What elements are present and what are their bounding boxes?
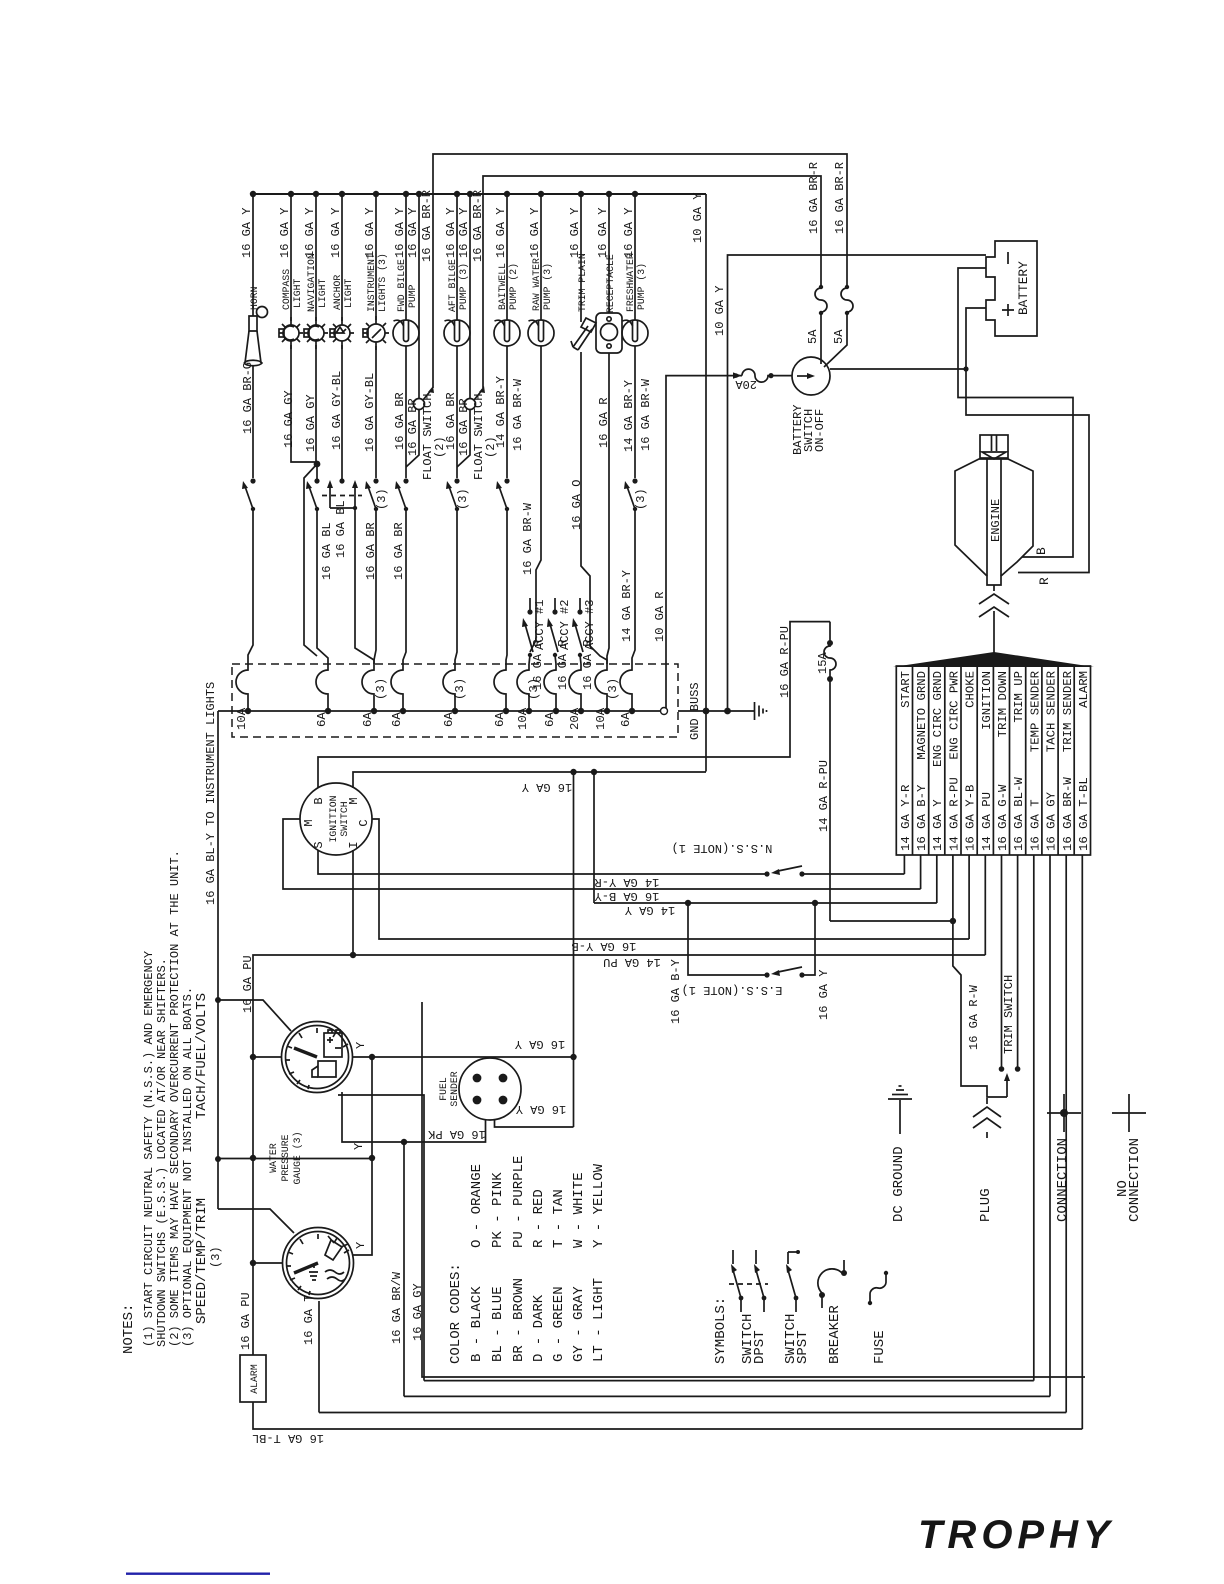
svg-text:(1) START CIRCUIT NEUTRAL SAF: (1) START CIRCUIT NEUTRAL SAFETY (N.S.S.…	[142, 951, 156, 1347]
svg-text:(3): (3)	[527, 678, 541, 700]
node trim down contact	[999, 1066, 1005, 1072]
wire ground drop to sender bar	[573, 772, 575, 1127]
wire trim plain down	[581, 352, 607, 664]
svg-text:DPST: DPST	[752, 1330, 768, 1364]
svg-text:M: M	[302, 819, 316, 826]
wire fuse bus	[218, 710, 661, 712]
svg-text:14 GA BR-Y: 14 GA BR-Y	[620, 570, 634, 642]
svg-text:14 GA BR-Y: 14 GA BR-Y	[494, 376, 508, 448]
svg-text:16 GA Y-B: 16 GA Y-B	[964, 785, 978, 851]
wire nav switch to fuse	[317, 509, 328, 664]
wire ignition M-top to gnd (16 GA Y)	[353, 772, 706, 788]
svg-text:(3): (3)	[606, 678, 620, 700]
node c4 junction	[950, 918, 956, 924]
svg-text:16 GA BR: 16 GA BR	[393, 392, 407, 450]
svg-text:16 GA Y: 16 GA Y	[329, 208, 343, 258]
node PU tap tach	[250, 1054, 256, 1060]
svg-text:(2) SOME ITEMS MAY HAVE SECON: (2) SOME ITEMS MAY HAVE SECONDARY OVERCU…	[168, 850, 182, 1347]
fuse 5A #1	[815, 288, 827, 364]
svg-text:16 GA Y: 16 GA Y	[568, 208, 582, 258]
wire accy1 to fuse	[529, 655, 530, 664]
horn symbol	[244, 305, 268, 366]
wire fuel sender PK	[342, 1092, 486, 1142]
wire instrument switch to fuse	[374, 509, 376, 664]
svg-text:ALARM: ALARM	[249, 1364, 260, 1394]
svg-text:I: I	[347, 841, 361, 848]
wire ESS left branch	[688, 903, 767, 975]
svg-text:16 GA Y: 16 GA Y	[406, 208, 420, 258]
wire navigation drop	[315, 194, 317, 325]
svg-text:16 GA Y: 16 GA Y	[278, 208, 292, 258]
wire ignition B to 15A box (16 GA R-PU)	[318, 622, 830, 788]
alarm box	[240, 1355, 266, 1402]
symbol connection	[1047, 1094, 1081, 1132]
wire receptacle drop	[608, 194, 610, 313]
svg-text:16 GA GY-BL: 16 GA GY-BL	[330, 371, 344, 450]
fuse 20A	[742, 369, 792, 382]
svg-text:TROPHY: TROPHY	[918, 1513, 1115, 1557]
svg-text:16 GA BL-Y TO INSTRUMENT LIGHT: 16 GA BL-Y TO INSTRUMENT LIGHTS	[204, 682, 218, 905]
svg-text:G - GREEN: G - GREEN	[551, 1286, 567, 1362]
svg-text:PUMP (3): PUMP (3)	[458, 263, 469, 310]
svg-text:16 GA Y: 16 GA Y	[596, 208, 610, 258]
connector strip dividers	[913, 666, 1075, 855]
fuse 15A	[824, 622, 836, 921]
svg-text:6A: 6A	[442, 712, 456, 727]
water pressure stub	[218, 1158, 372, 1160]
node gauge ground tap 2	[591, 769, 597, 775]
svg-text:14 GA Y: 14 GA Y	[931, 799, 945, 851]
blue rule bottom left	[126, 1573, 270, 1575]
wire tach gauge light feed	[218, 1000, 291, 1031]
svg-text:LIGHT: LIGHT	[317, 278, 328, 308]
wire float2 drop 16 GA Y	[469, 194, 471, 399]
wire ignition S to start line	[318, 850, 766, 874]
wire ESS right branch	[802, 903, 815, 975]
label SWITCH SPST	[783, 1314, 811, 1364]
wire start line right	[802, 873, 904, 875]
light symbol navigation	[304, 317, 328, 349]
svg-text:HORN: HORN	[249, 286, 260, 310]
svg-text:16 GA BR-W: 16 GA BR-W	[521, 502, 535, 575]
node gnd buss x706	[703, 708, 710, 715]
node 20A out	[768, 373, 773, 378]
svg-text:RAW WATER: RAW WATER	[531, 258, 542, 311]
node ESS left hang	[685, 900, 691, 906]
node compass-nav junction	[314, 461, 321, 468]
wire 10 GA Y drop from bus	[705, 194, 707, 772]
svg-text:CHOKE: CHOKE	[964, 671, 978, 708]
symbol breaker	[818, 1260, 847, 1308]
svg-text:10 GA R: 10 GA R	[653, 592, 667, 642]
wire eng circ grnd line	[594, 855, 937, 903]
svg-text:PRESSURE: PRESSURE	[280, 1134, 291, 1181]
svg-text:PU - PURPLE: PU - PURPLE	[511, 1156, 527, 1248]
svg-text:IGNITION: IGNITION	[328, 795, 339, 842]
svg-text:6A: 6A	[543, 712, 557, 727]
svg-text:16 GA GY: 16 GA GY	[304, 394, 318, 452]
svg-text:W - WHITE: W - WHITE	[571, 1172, 587, 1248]
svg-text:START: START	[899, 671, 913, 708]
svg-text:10 GA Y: 10 GA Y	[713, 286, 727, 336]
fuse amp labels	[235, 678, 633, 730]
label IGNITION SWITCH	[328, 795, 350, 842]
wire anchor drop	[341, 194, 343, 325]
node 15A top	[827, 640, 833, 646]
svg-text:BAITWELL: BAITWELL	[497, 263, 508, 310]
wire anchor down	[341, 341, 343, 479]
svg-text:16 GA Y: 16 GA Y	[622, 208, 636, 258]
svg-text:14 GA Y-R: 14 GA Y-R	[595, 875, 660, 889]
wire instrument drop	[375, 194, 377, 324]
trim plain symbol	[571, 318, 596, 350]
wire speed gauge light feed	[218, 1209, 294, 1233]
nodes 5A fuse ends	[819, 285, 823, 289]
switch nav	[306, 478, 320, 511]
wire raw water drop	[540, 194, 542, 320]
wire eng circ pwr line	[830, 855, 1007, 1097]
svg-text:COLOR CODES:: COLOR CODES:	[448, 1263, 464, 1364]
svg-text:16 GA Y: 16 GA Y	[303, 208, 317, 258]
label NO CONNECTION	[1115, 1138, 1143, 1222]
svg-text:B - BLACK: B - BLACK	[469, 1286, 485, 1362]
svg-text:ENG CIRC PWR: ENG CIRC PWR	[948, 670, 962, 759]
wire aft bilge drop	[456, 194, 458, 320]
wire float switch feed 1 (16 GA BR-R)	[433, 154, 847, 388]
wire tach sender line	[404, 855, 1050, 1396]
svg-text:16 GA BR: 16 GA BR	[457, 398, 471, 456]
wire ignition C to choke line	[372, 819, 969, 939]
svg-text:SWITCH: SWITCH	[339, 801, 350, 836]
wire compass down + jog to nav	[291, 341, 317, 462]
svg-text:COMPASS: COMPASS	[281, 269, 292, 310]
wire baitwell drop	[506, 194, 508, 320]
engine outline	[955, 435, 1033, 585]
node R junction	[963, 366, 968, 371]
svg-text:14 GA BR-Y: 14 GA BR-Y	[622, 380, 636, 452]
wire freshwater to switch	[634, 346, 636, 478]
svg-text:16 GA Y: 16 GA Y	[817, 970, 831, 1020]
node tach ground junction	[570, 1054, 576, 1060]
wire trim down c7	[1001, 855, 1003, 1069]
switch baitwell	[496, 478, 510, 511]
svg-text:SPST: SPST	[795, 1330, 811, 1364]
svg-text:PUMP (2): PUMP (2)	[508, 263, 519, 310]
svg-text:SHUTDOWN SWITCHS (E.S.S.) LOCA: SHUTDOWN SWITCHS (E.S.S.) LOCATED AT/OR …	[155, 958, 169, 1347]
svg-text:10 GA Y: 10 GA Y	[691, 193, 705, 243]
svg-text:6A: 6A	[493, 712, 507, 727]
wire tach sender GY	[338, 1095, 424, 1381]
switch horn	[242, 478, 256, 511]
svg-text:T - TAN: T - TAN	[551, 1189, 567, 1248]
switch aft bilge	[446, 478, 460, 511]
pump symbol raw water	[528, 320, 554, 346]
wire trim plain drop	[580, 194, 582, 322]
svg-text:Y: Y	[354, 1242, 368, 1249]
svg-text:(3): (3)	[375, 488, 389, 510]
svg-text:6A: 6A	[390, 712, 404, 727]
node water pressure right	[369, 1155, 375, 1161]
wire accy3 to fuse	[580, 655, 581, 664]
svg-text:6A: 6A	[315, 712, 329, 727]
switch ESS blade	[764, 967, 804, 978]
svg-text:16 GA BL: 16 GA BL	[320, 522, 334, 580]
wire compass drop	[290, 194, 292, 325]
svg-text:SPEED/TEMP/TRIM: SPEED/TEMP/TRIM	[194, 1198, 210, 1324]
wire battery plus to engine R	[966, 369, 1089, 573]
float switch fwd	[414, 386, 435, 410]
wire temp sender line	[424, 855, 1034, 1381]
svg-text:B: B	[312, 797, 326, 804]
battery switch circle	[792, 357, 830, 395]
symbol switch spst	[786, 1250, 800, 1312]
svg-text:16 GA BR: 16 GA BR	[392, 522, 406, 580]
svg-text:16 GA BR-R: 16 GA BR-R	[807, 162, 821, 234]
wire horn drop	[252, 194, 254, 308]
svg-text:10A: 10A	[235, 707, 249, 730]
svg-text:NOTES:: NOTES:	[121, 1304, 137, 1354]
wire ignition M-left to magneto grnd line	[283, 819, 921, 889]
svg-text:6A: 6A	[361, 712, 375, 727]
battery switch arrow	[797, 373, 815, 379]
svg-text:16 GA BR-G: 16 GA BR-G	[241, 362, 255, 434]
fuses in panel	[236, 664, 632, 711]
node gauge ground tap 1	[570, 769, 576, 775]
svg-text:14 GA PU: 14 GA PU	[603, 955, 661, 969]
svg-text:16 GA R: 16 GA R	[556, 640, 570, 690]
wire battery switch to battery plus	[830, 308, 986, 369]
svg-text:16 GA BR-W: 16 GA BR-W	[639, 378, 653, 451]
svg-text:16 GA Y: 16 GA Y	[393, 208, 407, 258]
svg-text:16 GA Y: 16 GA Y	[528, 208, 542, 258]
wire 16 GA BL-Y to instrument lights	[217, 711, 219, 1209]
wire float2 below	[457, 409, 470, 467]
svg-text:AFT BILGE: AFT BILGE	[447, 259, 458, 312]
wire tach Y ground	[352, 1056, 574, 1058]
label SWITCH DPST	[740, 1314, 768, 1364]
svg-text:FRESHWATER: FRESHWATER	[625, 253, 636, 312]
label WATER PRESSURE GAUGE (3)	[268, 1132, 303, 1185]
arrow on 20A feed	[733, 372, 742, 378]
svg-text:WATER: WATER	[268, 1143, 279, 1173]
svg-text:(3) OPTIONAL EQUIPMENT NOT IN: (3) OPTIONAL EQUIPMENT NOT INSTALLED ON …	[181, 987, 195, 1347]
svg-text:CONNECTION: CONNECTION	[1055, 1138, 1071, 1222]
symbol no connection	[1112, 1094, 1146, 1132]
wire 16 GA Y gauge ground right	[593, 772, 595, 903]
color codes columns	[469, 1156, 607, 1362]
svg-text:TACH/FUEL/VOLTS: TACH/FUEL/VOLTS	[194, 993, 210, 1119]
svg-text:ANCHOR: ANCHOR	[332, 275, 343, 310]
svg-text:20A: 20A	[568, 707, 582, 730]
svg-text:16 GA Y: 16 GA Y	[363, 208, 377, 258]
wire water pressure to speed gauge Y	[352, 1057, 372, 1255]
wire alarm line	[253, 855, 1082, 1429]
wire temp sender T from speed gauge	[318, 1301, 320, 1413]
svg-text:PUMP (3): PUMP (3)	[636, 263, 647, 310]
svg-text:20A: 20A	[735, 377, 757, 391]
svg-text:R: R	[1037, 577, 1052, 585]
svg-text:MAGNETO GRND: MAGNETO GRND	[915, 671, 929, 760]
light symbol compass	[279, 317, 303, 349]
svg-text:14 GA Y: 14 GA Y	[625, 903, 675, 917]
svg-text:LIGHT: LIGHT	[292, 278, 303, 308]
svg-text:16 GA PK: 16 GA PK	[427, 1127, 485, 1141]
float switch aft	[465, 386, 486, 410]
svg-text:INSTRUMENT: INSTRUMENT	[366, 253, 377, 312]
svg-text:(3): (3)	[456, 488, 470, 510]
wire accy2 to fuse	[555, 655, 556, 664]
wire ground bus 16 GA Y	[253, 193, 706, 195]
svg-text:16 GA BR-R: 16 GA BR-R	[471, 190, 485, 262]
wire fwd bilge pump to switch	[405, 346, 407, 478]
wire 20A feed from fuse bus	[666, 376, 742, 708]
symbol fuse	[868, 1271, 888, 1305]
wire float switch feed 2 (16 GA BR-R)	[483, 176, 821, 388]
switch freshwater	[624, 478, 638, 511]
wire nav down	[316, 341, 317, 479]
wire baitwell switch to fuse	[506, 509, 507, 664]
svg-text:16 GA BR/W: 16 GA BR/W	[390, 1271, 404, 1344]
svg-text:O - ORANGE: O - ORANGE	[469, 1164, 485, 1248]
svg-text:LT - LIGHT: LT - LIGHT	[591, 1278, 607, 1362]
pump symbol fwd bilge	[393, 320, 419, 346]
svg-text:GAUGE (3): GAUGE (3)	[292, 1132, 303, 1185]
svg-text:TRIM DOWN: TRIM DOWN	[996, 671, 1010, 737]
svg-text:16 GA Y: 16 GA Y	[516, 1102, 566, 1116]
wire horn switch to fuse	[248, 509, 253, 664]
tach gauge	[282, 1022, 353, 1093]
node PU tap speed	[250, 1260, 256, 1266]
svg-text:5A: 5A	[806, 329, 820, 344]
svg-text:16 GA B-Y: 16 GA B-Y	[669, 959, 683, 1024]
svg-text:(3): (3)	[634, 488, 648, 510]
legend box	[422, 1002, 1085, 1377]
wire 10 GA Y to battery minus	[728, 255, 987, 711]
svg-text:FWD BILGE: FWD BILGE	[396, 259, 407, 312]
svg-text:LIGHT: LIGHT	[343, 278, 354, 308]
svg-text:FUEL: FUEL	[438, 1077, 449, 1101]
wire c2 MAGNETO down	[920, 855, 922, 889]
svg-text:SYMBOLS:: SYMBOLS:	[713, 1297, 729, 1364]
nodes fuse bus	[245, 708, 635, 714]
connector strip black cap	[893, 652, 1094, 667]
svg-text:16 GA GY: 16 GA GY	[411, 1283, 425, 1341]
wire ignition I to ignition line	[353, 850, 985, 955]
svg-text:16 GA T-BL: 16 GA T-BL	[252, 1431, 324, 1445]
svg-text:PLUG: PLUG	[978, 1188, 994, 1222]
svg-text:16 GA PU: 16 GA PU	[241, 955, 255, 1013]
svg-text:15A: 15A	[816, 652, 830, 674]
svg-text:16 GA BL: 16 GA BL	[334, 500, 348, 558]
wire aft switch to fuse	[455, 509, 457, 664]
fuel sender tab + ground wire	[486, 1119, 574, 1127]
svg-text:16 GA BR-W: 16 GA BR-W	[511, 378, 525, 451]
wire freshwater switch to fuse	[632, 509, 635, 664]
svg-text:ON-OFF: ON-OFF	[813, 409, 827, 452]
svg-text:16 GA BR-W: 16 GA BR-W	[1061, 777, 1075, 851]
svg-text:IGNITION: IGNITION	[980, 671, 994, 730]
svg-text:10A: 10A	[516, 707, 530, 730]
wire compass branch diagonal	[304, 464, 317, 656]
svg-text:16 GA T: 16 GA T	[302, 1295, 316, 1345]
svg-text:16 GA Y-B: 16 GA Y-B	[572, 939, 637, 953]
svg-text:Y - YELLOW: Y - YELLOW	[591, 1163, 607, 1248]
wire freshwater drop	[634, 194, 636, 320]
svg-text:B: B	[1034, 547, 1049, 555]
pump symbol freshwater	[622, 320, 648, 346]
svg-text:16 GA BR: 16 GA BR	[364, 522, 378, 580]
svg-text:RECEPTACLE: RECEPTACLE	[605, 254, 616, 313]
svg-text:TRIM PLAIN: TRIM PLAIN	[577, 253, 588, 312]
plug chevrons engine connector	[979, 585, 1009, 653]
wire float1 drop 16 GA Y	[418, 194, 420, 399]
svg-text:NAVIGATION: NAVIGATION	[306, 253, 317, 312]
wire dpst to fuse	[355, 508, 374, 664]
svg-text:16 GA BR-R: 16 GA BR-R	[420, 190, 434, 262]
svg-text:16 GA Y: 16 GA Y	[522, 780, 572, 794]
svg-text:16 GA G-W: 16 GA G-W	[996, 784, 1010, 851]
svg-text:16 GA R: 16 GA R	[581, 640, 595, 690]
svg-text:16 GA Y: 16 GA Y	[494, 208, 508, 258]
wire aft bilge pump down	[456, 346, 458, 478]
svg-text:16 GA Y: 16 GA Y	[515, 1037, 565, 1051]
svg-text:TACH SENDER: TACH SENDER	[1045, 670, 1059, 752]
svg-text:16 GA Y: 16 GA Y	[457, 208, 471, 258]
svg-text:14 GA PU: 14 GA PU	[980, 792, 994, 851]
svg-text:16 GA T: 16 GA T	[1029, 799, 1043, 851]
svg-text:DC GROUND: DC GROUND	[891, 1146, 907, 1222]
svg-text:GY - GRAY: GY - GRAY	[571, 1286, 587, 1362]
dial symbol instrument lights	[363, 316, 389, 350]
svg-text:(3): (3)	[453, 678, 467, 700]
node ESS right tie	[812, 900, 818, 906]
svg-text:16 GA R: 16 GA R	[597, 398, 611, 448]
svg-text:6A: 6A	[619, 712, 633, 727]
svg-text:BATTERY: BATTERY	[1016, 261, 1031, 315]
svg-text:PUMP (3): PUMP (3)	[542, 263, 553, 310]
svg-text:LIGHTS (3): LIGHTS (3)	[377, 253, 388, 312]
connector strip box	[896, 666, 1090, 855]
node ignition line split	[350, 952, 356, 958]
svg-text:PK - PINK: PK - PINK	[490, 1172, 506, 1248]
svg-text:16 GA GY-BL: 16 GA GY-BL	[363, 373, 377, 452]
light symbol anchor	[330, 317, 354, 349]
wire trim up c8	[1017, 855, 1019, 1069]
fuel sender circle	[459, 1058, 521, 1120]
fuel sender bolts	[473, 1074, 508, 1105]
symbol plug	[973, 1098, 1001, 1138]
fuse panel box	[232, 664, 678, 737]
ignition switch circle	[300, 783, 372, 855]
wire PU tap to speed gauge	[253, 1262, 283, 1264]
svg-text:C: C	[357, 819, 371, 826]
svg-text:16 GA R-PU: 16 GA R-PU	[778, 626, 792, 698]
svg-text:10A: 10A	[594, 707, 608, 730]
switch accy 2	[547, 598, 558, 657]
svg-text:16 GA BR: 16 GA BR	[406, 398, 420, 456]
node trim up contact	[1015, 1066, 1021, 1072]
svg-text:PUMP: PUMP	[407, 284, 418, 308]
wire receptacle down to fuse	[607, 353, 609, 664]
svg-text:16 GA Y: 16 GA Y	[240, 208, 254, 258]
svg-text:16 GA BL-W: 16 GA BL-W	[1012, 777, 1026, 851]
switch fwd bilge	[395, 478, 409, 511]
receptacle symbol	[596, 313, 622, 353]
wire PU tap to tach	[253, 1056, 282, 1058]
svg-text:N.S.S.(NOTE 1): N.S.S.(NOTE 1)	[672, 841, 773, 855]
wire float1 below	[406, 409, 419, 467]
svg-text:TRIM UP: TRIM UP	[1012, 671, 1026, 723]
